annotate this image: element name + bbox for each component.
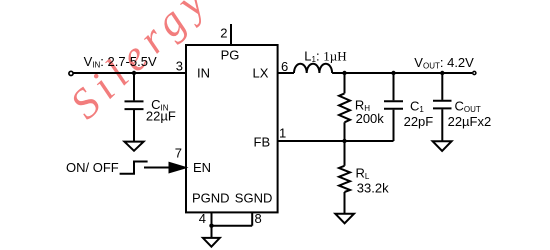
svg-text:ON/ OFF: ON/ OFF — [66, 160, 119, 175]
svg-text:PGND: PGND — [192, 190, 230, 205]
svg-text:7: 7 — [175, 146, 182, 161]
svg-text:FB: FB — [254, 135, 271, 150]
svg-text:33.2k: 33.2k — [357, 181, 389, 196]
svg-text:6: 6 — [281, 59, 288, 74]
svg-text:4: 4 — [199, 211, 206, 226]
svg-text:1: 1 — [279, 126, 286, 141]
svg-text:L1: 1µH: L1: 1µH — [304, 49, 346, 65]
svg-text:SGND: SGND — [235, 190, 273, 205]
svg-text:2: 2 — [220, 26, 227, 41]
svg-text:22µFx2: 22µFx2 — [448, 114, 492, 129]
svg-text:3: 3 — [176, 59, 183, 74]
svg-text:22µF: 22µF — [146, 108, 176, 123]
svg-text:PG: PG — [221, 47, 240, 62]
svg-text:200k: 200k — [356, 111, 385, 126]
svg-text:EN: EN — [193, 160, 211, 175]
svg-text:22pF: 22pF — [404, 114, 434, 129]
svg-text:8: 8 — [255, 211, 262, 226]
svg-text:IN: IN — [197, 66, 210, 81]
svg-text:LX: LX — [253, 66, 269, 81]
